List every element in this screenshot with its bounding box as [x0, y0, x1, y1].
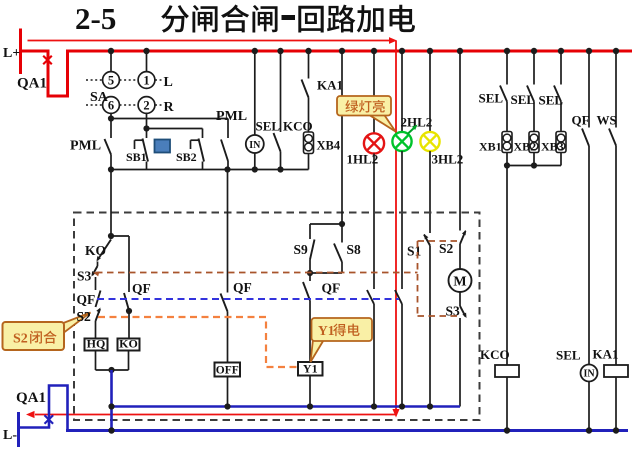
connector XB2: [529, 132, 539, 153]
svg-text:OFF: OFF: [216, 365, 239, 377]
selector switch SA: contact 2: [138, 97, 155, 114]
svg-text:SEL: SEL: [556, 348, 581, 363]
svg-text:KO: KO: [85, 243, 106, 258]
indicator SEL (IN) right: [581, 365, 598, 382]
orange dashed S2-Y1 path: [98, 317, 297, 367]
svg-text:5: 5: [108, 74, 114, 88]
svg-text:SB1: SB1: [126, 150, 147, 164]
svg-text:S2: S2: [77, 309, 92, 324]
blue inner return wire: [112, 405, 461, 408]
svg-text:HQ: HQ: [87, 337, 106, 351]
contact QF (left chain): [95, 277, 97, 290]
svg-text:S3: S3: [77, 269, 92, 284]
connector XB1: [502, 132, 512, 153]
pushbutton SB1: [146, 129, 148, 139]
svg-text:1HL2: 1HL2: [347, 152, 379, 167]
parallel QF branch to KO coil: [111, 235, 129, 237]
contact KCO: [280, 51, 282, 132]
contact WS: [615, 51, 617, 128]
contact S8: [341, 224, 343, 243]
svg-text:S9: S9: [294, 242, 309, 257]
wire down to KCO coil: [506, 166, 508, 366]
node L+ terminal stub and label: [19, 29, 22, 75]
coil box KO: [118, 339, 140, 351]
contact S1: [424, 235, 430, 246]
connector XB4: [304, 132, 314, 154]
svg-text:QF: QF: [322, 281, 341, 296]
wire L- rail: [66, 429, 628, 432]
svg-text:QF: QF: [233, 280, 252, 295]
SA mechanical dotted links row 1 and label L: [86, 79, 102, 81]
blue dashed QF path: [97, 298, 399, 300]
wire joining S9/S8 bottoms: [310, 272, 342, 274]
contact QF (OFF branch): [227, 170, 229, 293]
svg-text:KO: KO: [119, 337, 138, 351]
coil box OFF: [227, 312, 229, 363]
contact S9: [309, 224, 311, 239]
junction dots on L- rail: [108, 427, 114, 433]
blue wire drop to L- rail: [110, 370, 113, 431]
contact QF (Y1 branch): [309, 273, 311, 281]
svg-text:QF: QF: [572, 113, 590, 128]
svg-text:IN: IN: [583, 369, 595, 380]
contact QF under 2HL2: [395, 290, 402, 304]
dashed enclosure box: [74, 213, 480, 421]
wire from contact 2 to node, horizontal to SB2: [146, 113, 148, 128]
svg-text:L+: L+: [3, 46, 20, 61]
selector switch SA: contact 5: [110, 51, 112, 72]
title text 分闸合闸-回路加电: [161, 5, 277, 33]
selector switch SA: contact 6: [103, 97, 120, 114]
contact SEL3: [560, 51, 562, 85]
contact QF under 1HL2: [367, 290, 374, 304]
svg-text:SB2: SB2: [176, 150, 197, 164]
wire red feedback top with right arrow: [28, 40, 390, 42]
svg-text:L: L: [164, 75, 173, 90]
wire red feedback vertical with down arrow: [395, 41, 397, 410]
svg-text:QF: QF: [132, 281, 151, 296]
pushbutton SB2: [202, 129, 204, 139]
svg-text:SA: SA: [90, 90, 109, 105]
svg-text:SEL: SEL: [511, 92, 536, 107]
motor M: [449, 269, 472, 292]
svg-text:SEL: SEL: [256, 119, 281, 134]
wire joining HQ/KO bottoms: [96, 369, 129, 371]
lamp 1HL2 (red): [373, 51, 375, 133]
svg-text:R: R: [164, 100, 175, 115]
svg-text:XB4: XB4: [317, 139, 341, 153]
coil box Y1: [298, 362, 323, 376]
X mark on QA1 bottom: [45, 415, 54, 424]
junction dots on inner return: [108, 403, 114, 409]
svg-text:PML: PML: [70, 139, 101, 154]
svg-text:XB3: XB3: [541, 140, 564, 154]
wire bottom bar under buttons: [111, 169, 309, 171]
svg-text:QF: QF: [77, 292, 96, 307]
blue marker rectangle: [155, 140, 171, 153]
breaker QA1 (bottom, blue jog): [17, 386, 68, 431]
svg-text:KA1: KA1: [593, 347, 619, 362]
contact SEL2: [533, 51, 535, 85]
contact PML (right): [227, 119, 229, 139]
lamp 2HL2 (green): [401, 51, 403, 132]
svg-text:2HL2: 2HL2: [401, 115, 433, 130]
svg-text:PML: PML: [216, 109, 247, 124]
lamp 3HL2 (yellow): [429, 51, 431, 132]
wire L+ bus: [66, 50, 632, 53]
connector XB3: [556, 132, 566, 153]
coil KA1: [604, 365, 628, 377]
contact S2 (left chain): [96, 308, 100, 313]
contact S2 (right branch): [459, 51, 461, 231]
breaker QA1 (top, red jog): [19, 51, 68, 96]
coil KCO: [495, 365, 519, 377]
svg-text:2: 2: [143, 99, 149, 113]
contact S3 (left chain): [97, 262, 99, 267]
wire joining XB1-XB3: [507, 165, 561, 167]
svg-text:L-: L-: [3, 428, 17, 443]
svg-text:QA1: QA1: [17, 76, 47, 92]
SA mechanical dotted links row 2 and label R: [86, 104, 102, 106]
svg-text:IN: IN: [249, 140, 261, 151]
callout S2闭合: [62, 313, 91, 335]
contact KO: [98, 240, 112, 261]
contact S3 (right branch): [460, 306, 466, 317]
selector switch SA: contact 1: [146, 51, 148, 72]
contact PML (left): [110, 119, 112, 139]
svg-text:S2: S2: [439, 241, 454, 256]
svg-text:2-5: 2-5: [75, 1, 116, 36]
svg-text:M: M: [453, 275, 466, 290]
svg-text:S2: S2: [13, 332, 28, 347]
green arrow at 2HL2: [408, 128, 415, 135]
callout Y1得电: [311, 340, 325, 363]
svg-text:SEL: SEL: [479, 91, 504, 106]
svg-text:1: 1: [143, 74, 149, 88]
contact KA1: [308, 51, 310, 79]
svg-text:3HL2: 3HL2: [432, 152, 464, 167]
svg-text:S1: S1: [407, 244, 422, 259]
X mark on QA1 top: [43, 56, 52, 65]
svg-text:Y1: Y1: [303, 362, 318, 376]
svg-text:XB2: XB2: [514, 140, 537, 154]
svg-text:SEL: SEL: [539, 93, 564, 108]
svg-text:KCO: KCO: [480, 347, 510, 362]
wire from contact 6 to node, horizontal to PML right: [110, 113, 112, 118]
svg-text:QA1: QA1: [16, 390, 46, 406]
svg-text:6: 6: [108, 99, 114, 113]
junction dots on L+ bus: [108, 48, 114, 54]
svg-text:Y1: Y1: [318, 323, 335, 338]
node L- terminal stub and label: [17, 412, 20, 447]
wire feed from bus to S9/S8 pair: [341, 51, 343, 224]
svg-text:KA1: KA1: [317, 78, 343, 93]
indicator SEL (IN) on feed line: [254, 51, 256, 135]
coil box HQ: [95, 321, 97, 339]
svg-text:WS: WS: [597, 113, 617, 128]
contact QF (right): [588, 51, 590, 128]
contact SEL1: [506, 51, 508, 85]
brown dashed trip path with arrow: [96, 272, 418, 274]
svg-text:XB1: XB1: [479, 140, 502, 154]
svg-text:S8: S8: [347, 242, 362, 257]
wire red feedback bottom with left arrow: [35, 414, 397, 416]
wire into box and node: [110, 170, 112, 237]
callout 绿灯亮: [369, 115, 396, 132]
